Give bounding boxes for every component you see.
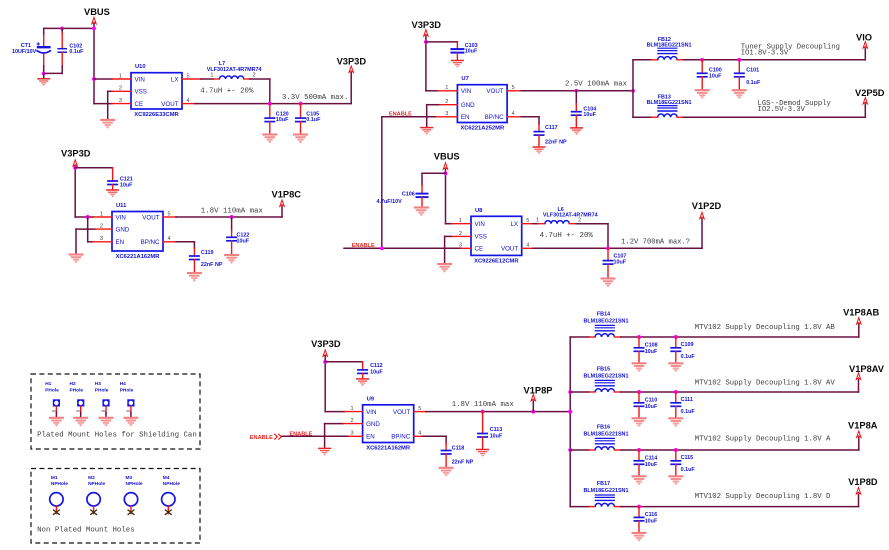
svg-text:C113: C113 xyxy=(490,427,503,433)
svg-text:VSS: VSS xyxy=(135,89,147,96)
svg-text:10uF: 10uF xyxy=(120,182,133,188)
svg-text:C119: C119 xyxy=(201,250,214,256)
svg-text:10uF: 10uF xyxy=(645,404,658,410)
svg-text:M4: M4 xyxy=(163,475,170,481)
svg-text:0.1uF: 0.1uF xyxy=(746,80,761,86)
svg-text:FB14: FB14 xyxy=(597,312,610,318)
svg-text:NPHole: NPHole xyxy=(51,481,68,487)
svg-text:ENABLE: ENABLE xyxy=(289,431,312,437)
svg-text:22nF NP: 22nF NP xyxy=(545,139,567,145)
svg-text:ENABLE: ENABLE xyxy=(389,111,412,117)
svg-text:ENABLE: ENABLE xyxy=(250,435,273,441)
svg-text:10uF: 10uF xyxy=(583,112,596,118)
svg-text:4.7uH +- 20%: 4.7uH +- 20% xyxy=(200,87,254,95)
svg-text:M3: M3 xyxy=(126,475,133,481)
svg-text:10uF: 10uF xyxy=(276,117,289,123)
svg-text:VOUT: VOUT xyxy=(501,246,518,253)
svg-text:VIO: VIO xyxy=(856,32,872,42)
svg-text:EN: EN xyxy=(366,434,375,441)
svg-text:V1P8AB: V1P8AB xyxy=(843,307,879,317)
svg-text:C106: C106 xyxy=(402,191,415,197)
svg-text:22nF NP: 22nF NP xyxy=(201,262,223,268)
svg-text:C118: C118 xyxy=(452,445,465,451)
svg-text:NPHole: NPHole xyxy=(88,481,105,487)
svg-text:10uF: 10uF xyxy=(645,462,658,468)
svg-text:C101: C101 xyxy=(746,68,759,74)
svg-text:V3P3D: V3P3D xyxy=(412,20,442,30)
svg-text:V1P8P: V1P8P xyxy=(524,385,553,395)
svg-text:U8: U8 xyxy=(475,208,483,214)
svg-text:1.8V 110mA max: 1.8V 110mA max xyxy=(452,401,515,409)
svg-text:C110: C110 xyxy=(645,398,658,404)
svg-text:C109: C109 xyxy=(681,342,694,348)
svg-text:10uF: 10uF xyxy=(645,518,658,524)
svg-text:PHole: PHole xyxy=(70,387,84,393)
svg-text:4.7uH +- 20%: 4.7uH +- 20% xyxy=(540,232,594,240)
svg-text:H3: H3 xyxy=(95,381,101,387)
svg-text:BLM18EG221SN1: BLM18EG221SN1 xyxy=(647,100,692,106)
svg-text:IO2.5V-3.3V: IO2.5V-3.3V xyxy=(758,106,806,114)
svg-text:1: 1 xyxy=(536,217,539,223)
svg-text:10uF: 10uF xyxy=(614,259,627,265)
svg-text:VIN: VIN xyxy=(461,88,471,95)
svg-text:NPHole: NPHole xyxy=(163,481,180,487)
svg-text:10uF: 10uF xyxy=(370,370,383,376)
svg-text:VOUT: VOUT xyxy=(142,214,159,221)
svg-text:VIN: VIN xyxy=(116,214,126,221)
svg-text:MTV102 Supply Decoupling 1.8V: MTV102 Supply Decoupling 1.8V A xyxy=(695,435,831,443)
svg-text:1: 1 xyxy=(210,73,213,79)
svg-text:BP/NC: BP/NC xyxy=(391,434,410,441)
svg-text:GND: GND xyxy=(461,102,475,109)
svg-text:XC6221A252MR: XC6221A252MR xyxy=(460,126,505,132)
svg-text:C122: C122 xyxy=(237,232,250,238)
svg-text:10uF: 10uF xyxy=(645,349,658,355)
svg-text:XC9226E33CMR: XC9226E33CMR xyxy=(134,112,179,118)
svg-text:PHole: PHole xyxy=(120,387,134,393)
svg-text:LX: LX xyxy=(511,221,519,228)
svg-text:V1P8A: V1P8A xyxy=(848,420,878,430)
svg-text:10uF: 10uF xyxy=(709,73,722,79)
svg-text:U7: U7 xyxy=(461,76,468,82)
svg-text:H1: H1 xyxy=(45,381,51,387)
svg-text:10uF: 10uF xyxy=(237,238,250,244)
svg-text:VOUT: VOUT xyxy=(486,88,503,95)
svg-text:10uF: 10uF xyxy=(490,434,503,440)
svg-text:H2: H2 xyxy=(70,381,76,387)
svg-text:C121: C121 xyxy=(120,176,133,182)
svg-text:V3P3D: V3P3D xyxy=(311,339,341,349)
svg-text:CE: CE xyxy=(135,101,144,108)
svg-text:V1P8AV: V1P8AV xyxy=(849,364,885,374)
svg-text:BP/NC: BP/NC xyxy=(141,239,160,246)
svg-text:C111: C111 xyxy=(681,397,693,403)
svg-text:VIN: VIN xyxy=(475,221,485,228)
svg-text:1.8V 110mA max: 1.8V 110mA max xyxy=(201,208,264,216)
svg-text:NPHole: NPHole xyxy=(126,481,143,487)
svg-text:C114: C114 xyxy=(645,456,658,462)
svg-text:4.7uF/10V: 4.7uF/10V xyxy=(377,199,403,205)
svg-text:2.5V 100mA max: 2.5V 100mA max xyxy=(565,80,628,88)
svg-text:GND: GND xyxy=(116,226,130,233)
svg-text:ENABLE: ENABLE xyxy=(352,243,375,249)
svg-text:C112: C112 xyxy=(370,363,383,369)
svg-text:BLM18EG221SN1: BLM18EG221SN1 xyxy=(584,373,629,379)
svg-text:22nF NP: 22nF NP xyxy=(452,459,474,465)
svg-text:1.2V 700mA max.?: 1.2V 700mA max.? xyxy=(621,238,690,246)
svg-text:2: 2 xyxy=(253,73,256,79)
svg-text:3.3V 500mA max.: 3.3V 500mA max. xyxy=(282,94,349,102)
svg-text:C115: C115 xyxy=(681,455,694,461)
svg-text:V2P5D: V2P5D xyxy=(855,88,885,98)
svg-text:V3P3D: V3P3D xyxy=(61,148,91,158)
svg-text:MTV102 Supply Decoupling 1.8V: MTV102 Supply Decoupling 1.8V AB xyxy=(695,324,836,332)
svg-text:L7: L7 xyxy=(219,61,225,67)
svg-text:IO1.8V-3.3V: IO1.8V-3.3V xyxy=(741,49,789,57)
svg-text:10UF/10V: 10UF/10V xyxy=(12,49,37,55)
svg-text:VLF3012AT-4R7MR74: VLF3012AT-4R7MR74 xyxy=(543,212,598,218)
svg-text:M1: M1 xyxy=(51,475,58,481)
svg-text:U10: U10 xyxy=(135,64,146,70)
svg-text:0.1uF: 0.1uF xyxy=(306,117,321,123)
svg-text:0.1uF: 0.1uF xyxy=(681,467,696,473)
svg-text:CE: CE xyxy=(475,246,484,253)
svg-text:FB15: FB15 xyxy=(597,367,610,373)
svg-text:LX: LX xyxy=(171,76,179,83)
svg-text:VIN: VIN xyxy=(366,409,376,416)
svg-text:PHole: PHole xyxy=(45,387,59,393)
svg-text:BLM18EG221SN1: BLM18EG221SN1 xyxy=(584,318,629,324)
svg-text:MTV102 Supply Decoupling 1.8V: MTV102 Supply Decoupling 1.8V AV xyxy=(695,380,836,388)
svg-text:VBUS: VBUS xyxy=(84,7,110,17)
svg-text:EN: EN xyxy=(461,114,470,121)
svg-text:V1P8D: V1P8D xyxy=(848,477,878,487)
svg-text:BLM18EG221SN1: BLM18EG221SN1 xyxy=(584,488,629,494)
svg-text:VBUS: VBUS xyxy=(434,152,460,162)
svg-text:GND: GND xyxy=(366,421,380,428)
svg-text:XC9226E12CMR: XC9226E12CMR xyxy=(474,259,519,265)
svg-text:C108: C108 xyxy=(645,343,658,349)
svg-text:XC6221A162MR: XC6221A162MR xyxy=(366,446,411,452)
svg-text:Non Plated Mount Holes: Non Plated Mount Holes xyxy=(37,526,135,534)
svg-text:Plated Mount Holes for Shieldi: Plated Mount Holes for Shielding Can xyxy=(37,431,197,439)
svg-text:V3P3D: V3P3D xyxy=(337,56,367,66)
svg-text:0.1uF: 0.1uF xyxy=(69,49,84,55)
svg-text:XC6221A162MR: XC6221A162MR xyxy=(116,254,161,260)
svg-text:FB17: FB17 xyxy=(597,481,610,487)
svg-text:H4: H4 xyxy=(120,381,126,387)
svg-text:0.1uF: 0.1uF xyxy=(681,409,696,415)
svg-text:VOUT: VOUT xyxy=(161,101,178,108)
svg-text:U9: U9 xyxy=(367,396,375,402)
svg-text:VSS: VSS xyxy=(475,234,487,241)
svg-text:VOUT: VOUT xyxy=(393,409,410,416)
svg-text:10uF: 10uF xyxy=(465,49,478,55)
svg-text:PHole: PHole xyxy=(95,387,109,393)
svg-text:C116: C116 xyxy=(645,512,658,518)
svg-text:C117: C117 xyxy=(545,125,558,131)
svg-text:MTV102 Supply Decoupling 1.8V: MTV102 Supply Decoupling 1.8V D xyxy=(695,493,831,501)
svg-text:FB16: FB16 xyxy=(597,425,610,431)
svg-text:BLM18EG221SN1: BLM18EG221SN1 xyxy=(647,43,692,49)
svg-text:U11: U11 xyxy=(116,203,127,209)
svg-text:M2: M2 xyxy=(88,475,95,481)
svg-text:BLM18EG221SN1: BLM18EG221SN1 xyxy=(584,431,629,437)
svg-text:V1P2D: V1P2D xyxy=(692,201,722,211)
svg-text:2: 2 xyxy=(578,217,581,223)
svg-text:EN: EN xyxy=(116,239,125,246)
svg-text:0.1uF: 0.1uF xyxy=(681,354,696,360)
svg-text:VIN: VIN xyxy=(135,76,145,83)
svg-text:V1P8C: V1P8C xyxy=(272,189,302,199)
svg-text:BP/NC: BP/NC xyxy=(485,114,504,121)
